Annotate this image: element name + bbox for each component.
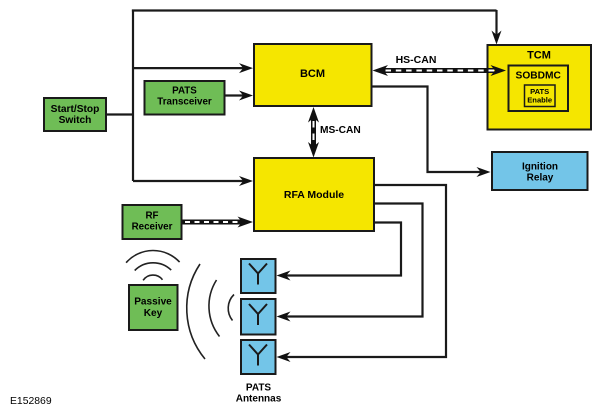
svg-text:Transceiver: Transceiver (157, 97, 212, 108)
arrowhead PATS Transceiver into BCM (239, 91, 253, 101)
svg-text:Passive: Passive (134, 297, 172, 308)
PATS antenna 3 (241, 340, 276, 374)
arrowhead into antenna 1 (277, 271, 291, 281)
Ignition Relay box (492, 152, 588, 190)
wire RFA Module to PATS antenna 3 (283, 185, 447, 357)
wire drop to TCM (495, 10, 497, 39)
svg-text:Receiver: Receiver (132, 222, 173, 233)
svg-text:RFA Module: RFA Module (284, 189, 344, 201)
PATS Antennas label (236, 383, 282, 405)
svg-text:Enable: Enable (527, 96, 552, 105)
wire BCM to Ignition Relay (372, 87, 485, 173)
arrowhead into Ignition Relay (477, 167, 491, 177)
RF Receiver box (123, 205, 182, 239)
RF Receiver dashed link to RFA (182, 217, 253, 228)
arrowhead into RFA left from trunk (239, 176, 253, 186)
svg-text:BCM: BCM (300, 68, 325, 80)
wire top bus horizontal (132, 9, 497, 11)
wire Start/Stop Switch to trunk (106, 113, 134, 115)
arrowhead into antenna 2 (277, 312, 291, 322)
RFA Module box (254, 158, 374, 231)
BCM box (254, 44, 372, 106)
svg-text:E152869: E152869 (10, 396, 52, 407)
Start/Stop Switch box (44, 98, 106, 131)
wire branch to RFA Module (133, 180, 247, 182)
svg-text:Antennas: Antennas (236, 394, 282, 405)
svg-text:Ignition: Ignition (522, 162, 558, 173)
svg-text:SOBDMC: SOBDMC (516, 71, 562, 82)
wire RFA Module to PATS antenna 2 (283, 204, 423, 317)
arrowhead into antenna 3 (277, 352, 291, 362)
wire RFA Module to PATS antenna 1 (283, 223, 402, 276)
signal arcs toward PATS antennas (187, 264, 234, 359)
TCM box (488, 45, 592, 130)
svg-text:HS-CAN: HS-CAN (396, 54, 437, 66)
wire PATS Transceiver to BCM (225, 94, 248, 96)
svg-text:RF: RF (145, 211, 158, 222)
PATS antenna 1 (241, 259, 276, 293)
HS-CAN bus (dashed, double arrow) (373, 65, 507, 76)
Passive Key box (129, 285, 178, 330)
PATS antenna 2 (241, 299, 276, 335)
SOBDMC box (509, 66, 569, 112)
svg-text:TCM: TCM (527, 50, 551, 62)
signal arcs above Passive Key (126, 250, 180, 280)
svg-text:Key: Key (144, 308, 163, 319)
arrowhead into TCM top (492, 31, 502, 45)
PATS Enable box (525, 85, 556, 107)
arrowhead into BCM left (239, 63, 253, 73)
svg-text:Relay: Relay (527, 173, 554, 184)
svg-text:Start/Stop: Start/Stop (51, 104, 100, 115)
wire trunk vertical (132, 10, 134, 182)
svg-text:MS-CAN: MS-CAN (320, 125, 361, 136)
MS-CAN bus (dashed, double arrow) (308, 107, 319, 158)
wire branch to BCM (133, 67, 247, 69)
svg-text:PATS: PATS (246, 383, 272, 394)
PATS Transceiver box (145, 81, 225, 115)
svg-text:Switch: Switch (59, 115, 92, 126)
svg-text:PATS: PATS (172, 86, 197, 97)
